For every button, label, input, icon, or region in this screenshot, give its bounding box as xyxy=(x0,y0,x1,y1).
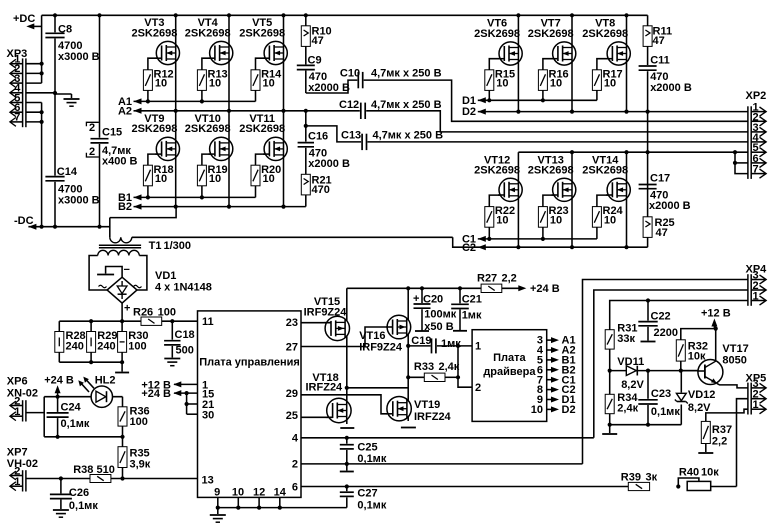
svg-text:9: 9 xyxy=(214,487,220,499)
svg-text:2: 2 xyxy=(89,146,95,158)
svg-text:100: 100 xyxy=(158,307,176,319)
svg-text:C17: C17 xyxy=(650,173,670,185)
svg-text:2: 2 xyxy=(89,122,95,134)
svg-text:VT17: VT17 xyxy=(722,343,748,355)
svg-text:IRFZ24: IRFZ24 xyxy=(306,381,344,393)
svg-text:3,9к: 3,9к xyxy=(130,458,151,470)
svg-text:10: 10 xyxy=(550,215,562,227)
svg-text:10: 10 xyxy=(604,78,616,90)
svg-text:11: 11 xyxy=(202,316,214,328)
svg-text:0,1мк: 0,1мк xyxy=(61,418,90,430)
svg-text:C10: C10 xyxy=(340,68,360,80)
svg-text:29: 29 xyxy=(286,388,298,400)
svg-text:500: 500 xyxy=(176,345,194,357)
svg-text:2SK2698: 2SK2698 xyxy=(185,27,231,39)
svg-text:R39: R39 xyxy=(621,472,641,484)
svg-text:2,4к: 2,4к xyxy=(617,403,638,415)
svg-text:27: 27 xyxy=(286,341,298,353)
svg-text:XN-02: XN-02 xyxy=(7,387,38,399)
svg-text:10к: 10к xyxy=(701,467,719,479)
svg-text:Т1: Т1 xyxy=(149,240,162,252)
svg-text:IRFZ24: IRFZ24 xyxy=(414,411,452,423)
svg-text:R38: R38 xyxy=(73,464,93,476)
svg-text:VD12: VD12 xyxy=(688,389,716,401)
svg-text:4,7мк x 250 В: 4,7мк x 250 В xyxy=(371,99,442,111)
svg-text:−: − xyxy=(124,264,130,276)
svg-text:x2000 В: x2000 В xyxy=(308,82,350,94)
svg-text:+24 В: +24 В xyxy=(530,283,560,295)
svg-text:C13: C13 xyxy=(341,130,361,142)
svg-text:10: 10 xyxy=(496,215,508,227)
svg-text:C21: C21 xyxy=(462,294,482,306)
svg-text:R33: R33 xyxy=(414,361,434,373)
svg-text:2SK2698: 2SK2698 xyxy=(582,28,628,40)
svg-text:C26: C26 xyxy=(69,487,89,499)
svg-text:1/300: 1/300 xyxy=(164,240,192,252)
svg-text:4,7мк x 250 В: 4,7мк x 250 В xyxy=(371,68,442,80)
svg-text:240: 240 xyxy=(66,341,84,353)
svg-text:C2: C2 xyxy=(462,242,476,254)
svg-text:7: 7 xyxy=(752,164,758,176)
svg-text:C8: C8 xyxy=(58,24,72,36)
svg-text:R26: R26 xyxy=(133,307,153,319)
svg-text:1: 1 xyxy=(14,406,20,418)
svg-text:+DC: +DC xyxy=(13,13,35,25)
svg-text:0,1мк: 0,1мк xyxy=(651,406,680,418)
svg-text:XP6: XP6 xyxy=(7,376,28,388)
svg-text:100: 100 xyxy=(128,341,146,353)
svg-text:3к: 3к xyxy=(646,472,658,484)
svg-text:10: 10 xyxy=(496,78,508,90)
svg-text:23: 23 xyxy=(286,317,298,329)
svg-text:2: 2 xyxy=(475,382,481,394)
svg-text:R27: R27 xyxy=(477,273,497,285)
svg-text:C14: C14 xyxy=(57,166,78,178)
svg-text:4: 4 xyxy=(292,433,299,445)
svg-text:2200: 2200 xyxy=(654,327,678,339)
svg-text:x3000 В: x3000 В xyxy=(58,51,100,63)
svg-text:1: 1 xyxy=(475,341,481,353)
svg-text:2SK2698: 2SK2698 xyxy=(185,123,231,135)
svg-text:R40: R40 xyxy=(679,467,699,479)
svg-text:C23: C23 xyxy=(651,388,671,400)
svg-text:2SK2698: 2SK2698 xyxy=(582,165,628,177)
svg-text:100мк: 100мк xyxy=(424,309,456,321)
svg-text:x2000 В: x2000 В xyxy=(650,82,692,94)
svg-text:10: 10 xyxy=(155,78,167,90)
svg-text:C16: C16 xyxy=(308,131,328,143)
svg-text:C24: C24 xyxy=(61,402,82,414)
svg-text:x2000 В: x2000 В xyxy=(649,200,691,212)
svg-text:8050: 8050 xyxy=(722,355,746,367)
svg-text:XP2: XP2 xyxy=(746,90,767,102)
svg-text:IRF9Z24: IRF9Z24 xyxy=(359,341,403,353)
svg-text:10: 10 xyxy=(263,78,275,90)
svg-text:+24 В: +24 В xyxy=(44,375,74,387)
svg-text:2SK2698: 2SK2698 xyxy=(474,165,520,177)
svg-text:C18: C18 xyxy=(175,329,195,341)
svg-text:1: 1 xyxy=(14,476,20,488)
svg-text:D1: D1 xyxy=(462,95,476,107)
svg-text:0,1мк: 0,1мк xyxy=(357,453,386,465)
svg-text:C11: C11 xyxy=(650,55,670,67)
svg-text:10: 10 xyxy=(209,78,221,90)
svg-text:33к: 33к xyxy=(617,333,635,345)
svg-text:8,2V: 8,2V xyxy=(621,379,644,391)
svg-text:C19: C19 xyxy=(411,335,431,347)
svg-text:B2: B2 xyxy=(118,201,132,213)
svg-text:VT19: VT19 xyxy=(414,399,440,411)
svg-text:4,7мк x 250 В: 4,7мк x 250 В xyxy=(373,130,444,142)
svg-text:4 x 1N4148: 4 x 1N4148 xyxy=(155,282,212,294)
svg-text:2SK2698: 2SK2698 xyxy=(131,123,177,135)
svg-text:2,4к: 2,4к xyxy=(439,361,460,373)
svg-text:+12 В: +12 В xyxy=(701,308,731,320)
svg-text:47: 47 xyxy=(656,227,668,239)
svg-text:510: 510 xyxy=(97,464,115,476)
svg-text:1: 1 xyxy=(752,291,758,303)
svg-text:2SK2698: 2SK2698 xyxy=(528,28,574,40)
svg-text:10: 10 xyxy=(531,404,543,416)
svg-text:XP4: XP4 xyxy=(746,264,768,276)
svg-text:14: 14 xyxy=(274,487,287,499)
svg-text:470: 470 xyxy=(312,184,330,196)
svg-text:+24 В: +24 В xyxy=(141,388,171,400)
svg-text:240: 240 xyxy=(97,341,115,353)
svg-text:Плата: Плата xyxy=(493,352,526,364)
svg-text:47: 47 xyxy=(312,35,324,47)
svg-text:30: 30 xyxy=(202,409,214,421)
svg-text:C12: C12 xyxy=(339,99,359,111)
svg-text:C20: C20 xyxy=(423,294,443,306)
svg-text:1: 1 xyxy=(752,399,758,411)
svg-text:VH-02: VH-02 xyxy=(7,458,38,470)
svg-text:10: 10 xyxy=(604,215,616,227)
svg-text:XP3: XP3 xyxy=(7,48,28,60)
svg-text:10: 10 xyxy=(232,487,244,499)
svg-text:13: 13 xyxy=(202,475,214,487)
svg-text:2SK2698: 2SK2698 xyxy=(239,27,285,39)
svg-text:C15: C15 xyxy=(102,127,122,139)
svg-text:XP5: XP5 xyxy=(746,372,767,384)
svg-text:10: 10 xyxy=(155,173,167,185)
svg-text:2SK2698: 2SK2698 xyxy=(474,28,520,40)
svg-text:C9: C9 xyxy=(308,55,322,67)
svg-text:2,2: 2,2 xyxy=(502,273,517,285)
svg-text:1мк: 1мк xyxy=(462,310,482,322)
svg-text:C27: C27 xyxy=(357,488,377,500)
svg-text:IRF9Z24: IRF9Z24 xyxy=(304,307,348,319)
svg-text:C25: C25 xyxy=(357,442,377,454)
svg-text:VD1: VD1 xyxy=(155,270,176,282)
svg-text:+: + xyxy=(413,293,419,305)
svg-text:x400 В: x400 В xyxy=(102,156,138,168)
svg-text:0,1мк: 0,1мк xyxy=(69,500,98,512)
svg-text:+: + xyxy=(124,303,130,315)
svg-text:x3000 В: x3000 В xyxy=(58,195,100,207)
svg-text:x2000 В: x2000 В xyxy=(308,158,350,170)
svg-text:47: 47 xyxy=(653,35,665,47)
svg-text:10: 10 xyxy=(209,173,221,185)
svg-text:2SK2698: 2SK2698 xyxy=(528,165,574,177)
svg-text:A2: A2 xyxy=(118,105,132,117)
svg-text:VT16: VT16 xyxy=(359,330,385,342)
svg-text:100: 100 xyxy=(130,416,148,428)
svg-text:Плата управления: Плата управления xyxy=(199,357,300,369)
svg-text:2SK2698: 2SK2698 xyxy=(131,27,177,39)
svg-text:25: 25 xyxy=(286,410,298,422)
svg-text:VD11: VD11 xyxy=(617,356,644,368)
svg-text:D2: D2 xyxy=(462,106,476,118)
svg-text:7: 7 xyxy=(14,112,20,124)
svg-text:0,1мк: 0,1мк xyxy=(357,500,386,512)
svg-text:-DC: -DC xyxy=(14,215,34,227)
svg-text:10к: 10к xyxy=(688,351,706,363)
svg-text:драйвера: драйвера xyxy=(483,366,536,378)
svg-text:HL2: HL2 xyxy=(95,374,116,386)
svg-text:10: 10 xyxy=(550,78,562,90)
svg-text:12: 12 xyxy=(253,487,265,499)
svg-text:2SK2698: 2SK2698 xyxy=(239,123,285,135)
svg-text:R37: R37 xyxy=(712,424,732,436)
svg-text:D2: D2 xyxy=(562,404,576,416)
svg-text:10: 10 xyxy=(263,173,275,185)
svg-text:XP7: XP7 xyxy=(7,447,28,459)
svg-text:C22: C22 xyxy=(651,311,671,323)
svg-text:6: 6 xyxy=(292,482,298,494)
svg-text:2: 2 xyxy=(292,459,298,471)
svg-text:2,2: 2,2 xyxy=(712,436,727,448)
